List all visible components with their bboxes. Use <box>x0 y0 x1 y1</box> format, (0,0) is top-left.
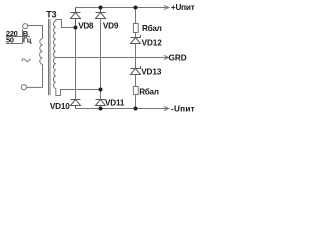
underline 220V <box>6 36 30 38</box>
wire +rail to R top <box>135 8 137 24</box>
diode VD10 <box>71 100 81 109</box>
zener VD12 <box>131 35 141 44</box>
diode VD11 <box>96 100 106 109</box>
svg-text:Rбал: Rбал <box>139 86 159 96</box>
svg-text:Rбал: Rбал <box>142 23 162 33</box>
junction node VD11 top <box>99 88 103 92</box>
svg-text:VD10: VD10 <box>50 102 70 111</box>
wire secondary top to VD8 anode <box>56 20 76 28</box>
wire R bottom to -rail <box>135 95 137 109</box>
junction node VD11 bottom <box>99 107 103 111</box>
resistor R bal bottom <box>133 87 138 95</box>
wire node B down (VD9 anode to VD11 cathode) <box>100 19 102 100</box>
wire terminal to primary top <box>28 26 43 39</box>
diode VD9 <box>96 8 106 19</box>
wire VD12 anode to VD13 cathode (crosses GRD) <box>135 44 137 69</box>
wire R to VD12 <box>135 33 137 38</box>
terminal input top <box>23 24 28 29</box>
wire VD13 to R bottom <box>135 75 137 87</box>
svg-text:GRD: GRD <box>169 54 187 63</box>
transformer T3 primary winding <box>40 39 43 65</box>
arrow +U <box>164 5 169 9</box>
core line right <box>49 19 51 95</box>
junction node R top rail <box>134 6 138 10</box>
diode VD8 <box>71 8 81 28</box>
svg-text:VD12: VD12 <box>142 38 163 47</box>
arrow -U <box>164 106 169 110</box>
svg-text:Т3: Т3 <box>46 9 56 19</box>
junction node VD9 top <box>99 6 103 10</box>
wire node A down (VD8 anode to VD10 cathode) <box>75 28 77 100</box>
GRD rail <box>56 57 169 59</box>
core line left <box>48 19 50 95</box>
wire terminal to primary bottom <box>27 64 43 87</box>
svg-text:Гц: Гц <box>23 36 32 45</box>
svg-text:50: 50 <box>6 36 14 45</box>
AC sine symbol <box>22 59 31 62</box>
wire secondary bottom to VD11 node <box>56 88 101 95</box>
label leader vertical <box>22 29 24 43</box>
svg-text:VD9: VD9 <box>103 22 119 31</box>
top rail +U <box>76 7 169 9</box>
svg-text:VD8: VD8 <box>78 21 94 30</box>
bottom rail -U <box>76 108 169 110</box>
underline 50Hz <box>6 43 23 45</box>
junction node VD8 anode <box>74 26 78 30</box>
zener VD13 <box>131 66 141 75</box>
svg-text:-Uпит: -Uпит <box>171 105 195 114</box>
terminal input bottom <box>21 85 26 90</box>
svg-text:VD13: VD13 <box>141 67 162 76</box>
arrow GRD <box>164 55 169 59</box>
transformer T3 secondary winding lower <box>53 58 55 89</box>
svg-text:VD11: VD11 <box>105 99 125 108</box>
transformer T3 secondary winding upper <box>54 21 56 58</box>
junction node R bottom rail <box>134 107 138 111</box>
svg-text:+Uпит: +Uпит <box>171 3 195 12</box>
resistor R bal top <box>133 24 138 33</box>
